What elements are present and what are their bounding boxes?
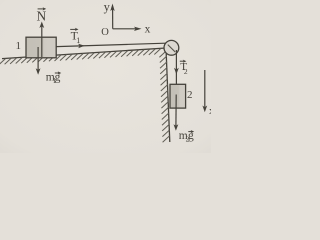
label m2g with vector bar <box>179 130 195 144</box>
svg-text:1: 1 <box>76 36 80 45</box>
table top surface line <box>2 48 166 59</box>
tension T2 arrowhead on string (down) <box>174 68 179 75</box>
svg-text:2: 2 <box>187 89 193 101</box>
svg-text:x: x <box>209 105 211 117</box>
normal force N arrow (from block base upward) <box>39 22 44 58</box>
label N with vector bar <box>37 7 47 23</box>
pulley at table corner <box>164 40 179 55</box>
svg-text:y: y <box>104 0 111 14</box>
coordinate axes: x axis <box>113 27 142 31</box>
wall edge line (table right side) <box>166 48 170 142</box>
svg-text:x: x <box>145 24 151 36</box>
ground hatching below table top <box>0 49 161 65</box>
svg-text:O: O <box>101 27 109 38</box>
label T2 with vector bar <box>180 60 188 76</box>
pulley diagonal mark <box>168 45 175 52</box>
string from pulley down to block 2 <box>175 50 177 85</box>
block 2 hanging <box>170 84 186 108</box>
coordinate axes: y axis <box>110 4 114 29</box>
weight m2g arrow (from block 2 centre downward) <box>174 95 179 131</box>
label m1g with vector bar <box>46 71 62 84</box>
svg-text:2: 2 <box>184 67 188 76</box>
weight m1g arrow (from block centre downward) <box>36 47 41 75</box>
label T1 with vector bar <box>70 28 80 45</box>
svg-text:N: N <box>37 9 47 24</box>
wall hatching left of edge <box>159 51 169 143</box>
direction-of-motion arrow at right edge (down) <box>202 70 207 112</box>
tension T1 arrowhead on string <box>78 44 85 49</box>
block 1 on table <box>26 37 56 58</box>
svg-text:1: 1 <box>16 40 22 52</box>
paper background <box>0 0 211 153</box>
string from block 1 to pulley <box>56 43 165 46</box>
